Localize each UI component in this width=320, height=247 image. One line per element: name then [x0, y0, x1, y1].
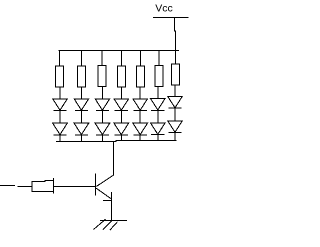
- svg-text:Vcc: Vcc: [155, 3, 173, 15]
